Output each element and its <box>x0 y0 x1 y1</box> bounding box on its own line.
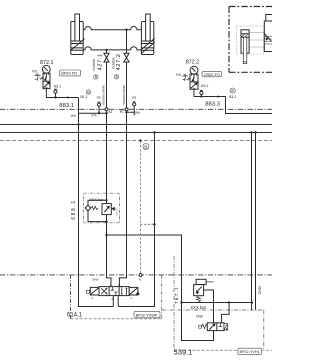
wire A-line vertical x=106.5 <box>107 62 112 287</box>
svg-text:B: B <box>144 144 147 149</box>
svg-text:XXX bar: XXX bar <box>89 197 104 202</box>
svg-text:872.1: 872.1 <box>40 60 54 66</box>
label circled B 2 <box>114 75 118 79</box>
node dot T-line on rail2 <box>153 131 155 133</box>
test point M1.1 <box>54 89 57 97</box>
wire solenoid return <box>222 303 230 323</box>
svg-text:767.1: 767.1 <box>174 286 179 304</box>
pilot symbols left of 872.2 <box>183 74 188 81</box>
wire tap upper <box>88 200 107 205</box>
valve shutoff 427.2 <box>124 30 129 62</box>
node dot P0 junction <box>98 112 100 114</box>
gauge 872.2 <box>190 66 198 74</box>
svg-text:lockable: lockable <box>92 59 96 71</box>
svg-text:M3.1: M3.1 <box>201 84 208 88</box>
wire P supply rail y=124.5 <box>0 124 272 126</box>
port Y circle <box>139 274 142 277</box>
node junction on lower pipe <box>105 49 107 51</box>
node dot DN10-1 on rail2 <box>250 131 252 133</box>
boundary dash-dot line y=109 (unit boundary top) <box>0 108 272 110</box>
component right edge (pump symbol) <box>264 15 273 52</box>
spring below <box>197 296 201 303</box>
wire branch y=113.2 from P-drop to A1 <box>79 112 107 114</box>
cylinder 427 right (Verstellkolben) <box>141 14 155 55</box>
node dot bypass lower <box>105 220 107 222</box>
svg-text:0%: 0% <box>71 114 77 118</box>
label circled B 4 <box>230 88 235 93</box>
node dot A-line y=113.2 <box>105 112 107 114</box>
port A1 circle <box>105 108 108 111</box>
solenoid right <box>129 287 138 295</box>
node dot B-line y=112.3 <box>125 111 127 113</box>
svg-text:HYD-DBV3-3R24A1: HYD-DBV3-3R24A1 <box>103 84 106 105</box>
relief valve 539.1 pilot group <box>162 256 272 350</box>
svg-text:lockable: lockable <box>111 57 115 69</box>
valve 3/2 solenoid <box>199 323 228 331</box>
svg-text:P0: P0 <box>97 96 101 100</box>
spring <box>91 206 98 209</box>
pilot head rect <box>196 279 206 284</box>
port B1 circle <box>125 108 128 111</box>
right position parallel arrows <box>122 287 127 295</box>
svg-text:0%: 0% <box>91 114 97 118</box>
solenoid left <box>90 287 99 295</box>
svg-text:539.1: 539.1 <box>174 348 193 357</box>
centre position blocked <box>111 287 118 295</box>
node dot Y on dashed rail <box>139 139 141 141</box>
svg-text:HYD-DBV3-3R24A1: HYD-DBV3-3R24A1 <box>123 84 126 105</box>
svg-text:614.1: 614.1 <box>67 313 83 319</box>
relief valve body <box>102 204 111 215</box>
svg-text:DN10: DN10 <box>258 286 262 294</box>
svg-text:A1: A1 <box>108 110 112 114</box>
svg-text:A: A <box>110 283 112 287</box>
label circled B 5 <box>143 144 149 150</box>
enclosure 539.1 <box>173 256 175 350</box>
node junction on upper pipe <box>125 29 127 31</box>
svg-text:M1.1: M1.1 <box>54 84 61 88</box>
left position crossed arrows <box>101 288 107 294</box>
test point P0 <box>97 102 100 113</box>
wire T return rail y=132.5 <box>0 132 272 134</box>
node dot drain right <box>251 301 253 303</box>
wire drain bus y=302.5 <box>182 302 253 304</box>
node dot DN10-2 on rail2 <box>254 131 256 133</box>
plug <box>199 325 202 328</box>
svg-text:427.2: 427.2 <box>116 53 122 70</box>
spring left of 3/2 <box>201 324 207 328</box>
node dot solenoid return junction <box>228 301 230 303</box>
wire P-drop vertical x=78.5 <box>79 98 114 307</box>
boundary dash-dot vertical x=70.5 <box>70 275 72 319</box>
node dot M3.1 junction <box>200 95 202 97</box>
wire 872.1 valve outlet to P-drop <box>46 89 78 98</box>
svg-text:CB02-FO: CB02-FO <box>204 72 220 77</box>
node dot P-drop on rail1 <box>77 123 79 125</box>
gauge 872.1 <box>42 65 50 73</box>
wire bypass lower <box>88 211 107 222</box>
arrow flow on wire <box>216 95 219 97</box>
label BF02-FD box <box>59 70 80 76</box>
wire DN10 vertical 2 <box>255 133 257 310</box>
wire lower pipe y=49.9 between cylinders <box>83 47 141 50</box>
enclosure faded inner box <box>237 26 264 54</box>
wire upper pipe y=29.7 between cylinders <box>83 27 141 30</box>
label BF02-YVWP box <box>134 311 160 318</box>
test point M3.1 <box>200 91 203 97</box>
wire DN10 vertical 1 <box>251 133 253 310</box>
wire relief outlet riser <box>204 290 214 323</box>
wire leakage dashed rail y=140.5 <box>0 140 272 142</box>
wire B1 branch stub <box>127 112 135 115</box>
check valve diamond <box>85 205 91 211</box>
svg-text:M1.2: M1.2 <box>80 95 87 99</box>
svg-text:883.3: 883.3 <box>205 102 220 108</box>
svg-text:F01: F01 <box>176 73 182 77</box>
valve directional 4/3 614.1 <box>86 287 140 296</box>
svg-text:XXX bar: XXX bar <box>190 305 206 310</box>
svg-text:427.1: 427.1 <box>98 53 104 70</box>
black pilot triangle <box>111 207 114 211</box>
svg-text:B: B <box>231 88 234 93</box>
arrow flow on wire <box>68 96 71 98</box>
wire 872.2 valve outlet <box>194 90 272 113</box>
wire Y branch dashed to T-line <box>141 223 155 225</box>
node dot M1.1 junction <box>54 96 56 98</box>
svg-text:DN8: DN8 <box>196 315 203 319</box>
enclosure top-right assembly dash-dot box <box>229 7 272 73</box>
label CB02-FO box <box>202 72 222 77</box>
pilot F01 symbols left of 872.1 <box>35 73 41 80</box>
valve pressure reducing 872.1 <box>40 73 50 89</box>
svg-text:M3.2: M3.2 <box>229 95 236 99</box>
enclosure 614.1 subplate <box>71 275 162 319</box>
test point P2 <box>133 102 136 112</box>
label port letters DCV <box>92 283 133 301</box>
node dot tap upper <box>105 199 107 201</box>
svg-text:B: B <box>118 283 120 287</box>
boundary dash-dot line y=275 (unit boundary bottom) <box>0 274 272 276</box>
plug left <box>86 290 89 293</box>
svg-text:872.2: 872.2 <box>186 60 200 66</box>
svg-text:P: P <box>112 297 114 301</box>
node dot drain left <box>180 301 182 303</box>
wire Y dashed line x=140.5 <box>140 141 142 274</box>
svg-text:BF02-YVWP: BF02-YVWP <box>136 313 158 317</box>
cylinder 427 left (Verstellkolben) <box>70 14 84 55</box>
node dot Y branch on T-line <box>153 223 155 225</box>
pilot dashed line <box>115 209 117 216</box>
relief valve 688.1 group <box>84 193 120 223</box>
valve pressure reducing 872.2 <box>187 74 198 90</box>
cylinder small (top-right) <box>241 30 264 64</box>
wire T-line x=154.5 <box>118 133 154 307</box>
label circled B 3 <box>86 90 90 95</box>
svg-text:BF02-YVH1: BF02-YVH1 <box>240 350 260 354</box>
wire B-line vertical x=126.5 <box>119 62 126 287</box>
label BF02-YVH1 box <box>238 348 262 355</box>
svg-text:883.1: 883.1 <box>59 103 74 109</box>
svg-text:B1: B1 <box>120 110 124 114</box>
svg-text:DN6: DN6 <box>92 278 98 282</box>
svg-text:0%: 0% <box>135 111 141 115</box>
wire A/T tie line y=235 <box>107 235 214 341</box>
wire faded connectors <box>249 40 264 47</box>
node dot tie on A-line <box>105 234 107 236</box>
svg-text:688.1: 688.1 <box>71 199 77 220</box>
svg-text:P2: P2 <box>132 96 136 100</box>
label circled B 1 <box>94 75 98 79</box>
svg-text:F01: F01 <box>32 70 38 74</box>
svg-text:BF02-FD: BF02-FD <box>61 71 77 76</box>
dashed enclosure 688.1 <box>84 193 120 223</box>
relief valve body <box>194 285 204 296</box>
valve shutoff 427.1 <box>104 50 109 62</box>
